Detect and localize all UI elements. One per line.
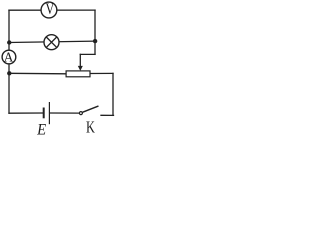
wire middle left (9, 72, 66, 75)
lamp X cross (46, 37, 56, 47)
node dot left-lamp junction (7, 40, 11, 44)
voltmeter U: circle (41, 2, 57, 18)
wire rheostat right (91, 72, 114, 74)
wire left vertical (8, 10, 10, 113)
switch K: lever (83, 106, 98, 112)
wire bottom left (9, 112, 43, 114)
battery E: short plate (43, 108, 45, 119)
svg-text:A: A (4, 49, 14, 64)
wire top (9, 9, 95, 11)
wire battery to switch (50, 112, 79, 114)
svg-text:V: V (46, 2, 55, 19)
ammeter: circle (2, 50, 16, 64)
rheostat R: box (66, 71, 90, 77)
wire switch contact (101, 114, 114, 116)
svg-text:K: K (86, 119, 95, 135)
node dot left-rheostat junction (7, 71, 11, 75)
svg-text:E: E (36, 122, 46, 135)
wire slider shaft (79, 54, 81, 66)
wire right lower vertical (112, 73, 114, 115)
battery E: long plate (48, 102, 50, 124)
node dot right-lamp junction (93, 39, 97, 43)
wire lamp row (9, 41, 95, 42)
rheostat slider arrowhead (78, 66, 83, 71)
lamp L: circle (44, 35, 59, 50)
wire right upper vertical (94, 10, 96, 54)
wire slider horizontal (80, 53, 95, 55)
switch K: pivot circle (79, 112, 82, 115)
